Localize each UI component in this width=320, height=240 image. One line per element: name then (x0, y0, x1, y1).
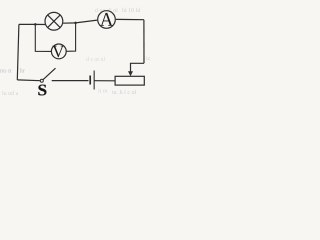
svg-text:iz: iz (146, 56, 151, 62)
junction node right (74, 22, 77, 25)
wire voltmeter branch left (35, 24, 51, 51)
switch lever (43, 68, 56, 80)
label S (38, 85, 46, 96)
svg-text:it m: it m (98, 89, 108, 95)
wire right vertical (143, 20, 145, 64)
svg-text:hr: hr (20, 68, 26, 75)
wire left vertical (17, 24, 19, 80)
switch pivot (40, 79, 43, 82)
wire battery to rheostat (94, 80, 115, 82)
junction node left (34, 23, 37, 26)
ammeter circle (98, 11, 116, 29)
background (0, 0, 160, 96)
wire lamp to ammeter (63, 20, 97, 23)
wire bottom-left to switch (17, 79, 40, 82)
voltmeter letter V (52, 46, 64, 58)
wire switch to battery (52, 80, 89, 82)
svg-text:d s ot nl: d s ot nl (86, 56, 106, 63)
battery negative short plate (89, 76, 91, 85)
svg-text:lu od a: lu od a (2, 90, 19, 96)
rheostat body (115, 76, 144, 85)
wire ammeter to top-right corner (116, 18, 144, 20)
battery positive long plate (93, 71, 95, 90)
ammeter letter A (100, 13, 113, 26)
wire voltmeter branch right (67, 23, 76, 51)
lamp (45, 12, 63, 30)
svg-text:hl 10 ld: hl 10 ld (122, 7, 140, 14)
voltmeter circle (51, 44, 66, 59)
svg-text:tu .h l c ol: tu .h l c ol (112, 89, 136, 96)
svg-text:no n: no n (0, 68, 12, 75)
wire stub to rheostat slider (131, 63, 145, 72)
rheostat slider arrowhead (128, 71, 133, 76)
wire top-left to lamp (19, 23, 45, 25)
